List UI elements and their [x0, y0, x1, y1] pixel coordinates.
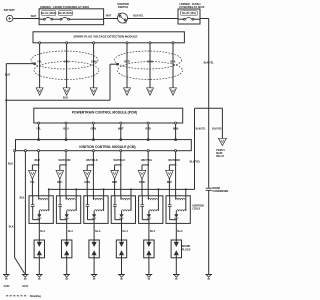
ICM output WHT/BLU to ignition coil No.4: [120, 150, 122, 152]
sense branch YEL with connector triangle (coil No.1): [32, 164, 38, 166]
wire BLK/YEL to noise condenser: [208, 108, 210, 188]
svg-text:RED: RED: [124, 60, 129, 63]
svg-text:GRN: GRN: [91, 127, 97, 130]
svg-text:BLK/YEL: BLK/YEL: [196, 128, 206, 130]
detection module terminal and sense wire GRN (cyl 3): [93, 42, 95, 44]
svg-text:No.25 (15A): No.25 (15A): [182, 12, 196, 15]
bus drop to coil No.1: [48, 188, 50, 190]
arrow to ignition coil No.4: [124, 88, 131, 96]
svg-text:COILS: COILS: [193, 208, 201, 211]
bus drop to coil No.3: [103, 188, 105, 190]
sense branch BLU with connector triangle (coil No.2): [60, 164, 66, 166]
svg-text:BATTERY: BATTERY: [4, 9, 15, 12]
shield ellipses left sensor group: [31, 51, 98, 69]
ICM output WHT/RED to ignition coil No.6: [175, 150, 177, 152]
svg-text:SPARK PLUG VOLTAGE DETECTION M: SPARK PLUG VOLTAGE DETECTION MODULE: [74, 34, 138, 38]
powertrain control module (PCM): [34, 108, 183, 123]
sense branch BRN with connector triangle (coil No.5): [142, 164, 148, 166]
ignition switch: [118, 13, 128, 23]
PCM output terminal 5 and wire to ICM: [147, 122, 149, 124]
arrow to ignition coil No.1: [36, 88, 43, 96]
svg-text:BRN: BRN: [139, 181, 145, 184]
wire BLK/YEL to PGM-FI main relay: [221, 108, 223, 138]
PCM output terminal 3 and wire to ICM: [92, 122, 94, 124]
spark plug No.3: [93, 223, 95, 240]
svg-text:BLK: BLK: [9, 227, 14, 229]
svg-text:PLUGS: PLUGS: [182, 248, 191, 251]
svg-text:GRN: GRN: [91, 60, 97, 63]
wire WHT fuse box to ignition switch: [104, 18, 118, 20]
svg-text:IG1: IG1: [124, 23, 127, 25]
ground spark plug No.6: [173, 274, 180, 276]
svg-text:YEL: YEL: [37, 60, 42, 63]
sense branch BLK with connector triangle (coil No.6): [169, 164, 175, 166]
svg-text:BLK/YEL: BLK/YEL: [190, 160, 201, 163]
under-hood fuse/relay box: [39, 9, 104, 25]
ground spark plug No.3: [91, 274, 98, 276]
ignition control module (ICM): [16, 140, 192, 151]
spark plug No.2: [66, 223, 68, 240]
noise condenser C1: [206, 187, 212, 189]
ground G102: [3, 274, 10, 276]
svg-text:BLU: BLU: [63, 127, 68, 130]
arrow to ignition coil No.6: [170, 88, 177, 96]
ICM ground terminal 1 wire BLK to G101: [14, 150, 16, 152]
arrow to ignition coil No.5: [147, 88, 154, 96]
svg-text:No.5: No.5: [150, 230, 156, 233]
svg-text:WHT/RED: WHT/RED: [168, 159, 180, 162]
svg-text:No.2: No.2: [68, 230, 74, 233]
shield ellipses right sensor group: [115, 51, 182, 69]
svg-text:BLK: BLK: [170, 60, 175, 63]
fuse No.35 (50A): [58, 11, 72, 16]
svg-text:BLK/YEL: BLK/YEL: [212, 128, 222, 130]
svg-text:No.4: No.4: [123, 230, 129, 233]
bus drop to coil No.5: [157, 188, 159, 190]
detection module terminal and sense wire YEL (cyl 1): [39, 42, 41, 44]
battery B1: [7, 15, 13, 21]
svg-text:BLK: BLK: [167, 181, 172, 184]
svg-text:CONDENSER: CONDENSER: [212, 190, 228, 193]
detection module terminal and sense wire RED (cyl 4): [126, 42, 128, 44]
svg-text:WHT/BLU: WHT/BLU: [114, 159, 126, 162]
ignition coil No.4: [111, 196, 135, 224]
svg-text:BLK/YEL: BLK/YEL: [204, 62, 215, 65]
off-page arrow PGM-FI main relay: [218, 138, 226, 145]
bus drop to coil No.4: [130, 188, 132, 190]
svg-text:No.3: No.3: [95, 230, 101, 233]
svg-text:BLK: BLK: [5, 74, 10, 77]
svg-text:WHT: WHT: [118, 127, 124, 130]
detection module terminal and sense wire BLU (cyl 2): [66, 42, 68, 44]
svg-text:BLU: BLU: [57, 181, 62, 184]
PCM output terminal 4 and wire to ICM: [120, 122, 122, 124]
svg-text:WHT: WHT: [106, 14, 112, 17]
ignition coil No.3: [84, 196, 108, 224]
detection module terminal and sense wire BRN (cyl 5): [149, 42, 151, 44]
ICM output WHT to ignition coil No.1: [38, 150, 40, 152]
arrow to ignition coil No.3: [90, 88, 97, 96]
spark plug No.1: [38, 223, 40, 240]
detection module terminal and sense wire BLK (cyl 6): [172, 42, 174, 44]
wire BLK/YEL to ignition coils: [194, 108, 196, 189]
svg-text:G102: G102: [4, 285, 11, 288]
sense branch GRN with connector triangle (coil No.3): [87, 164, 93, 166]
wire junction split under-dash feed: [195, 107, 223, 109]
wire shield ground G102 drop: [5, 100, 7, 274]
ignition coil No.6: [166, 196, 190, 224]
svg-text:No.1: No.1: [40, 230, 46, 233]
arrow to ignition coil No.2: [63, 88, 70, 96]
svg-text:WHT/GRN: WHT/GRN: [59, 159, 71, 162]
wire WHT battery to under-hood fuse box: [13, 18, 39, 20]
svg-text:No.6: No.6: [177, 230, 183, 233]
svg-text:RED: RED: [146, 127, 151, 130]
svg-text:SWITCH: SWITCH: [118, 5, 128, 9]
svg-text:YEL: YEL: [30, 181, 35, 184]
svg-text:POWERTRAIN CONTROL MODULE (PCM: POWERTRAIN CONTROL MODULE (PCM): [72, 110, 137, 114]
svg-text:RED: RED: [112, 181, 117, 184]
wire BLK/YEL down right side: [200, 18, 209, 20]
svg-text:IGNITION CONTROL MODULE (ICM): IGNITION CONTROL MODULE (ICM): [79, 145, 135, 149]
spark plug No.6: [175, 223, 177, 240]
svg-text:WHT: WHT: [31, 15, 37, 18]
bus drop to coil No.2: [75, 188, 77, 190]
svg-text:WHT/YEL: WHT/YEL: [141, 159, 153, 162]
svg-text:BRN: BRN: [173, 127, 179, 130]
wire BLK/YEL ignition switch to under-dash fuse box: [128, 18, 179, 20]
svg-text:BLK/YEL: BLK/YEL: [133, 14, 144, 17]
ground spark plug No.4: [118, 274, 125, 276]
spark plug No.5: [148, 223, 150, 240]
ignition coil No.5: [139, 196, 163, 224]
svg-text:RELAY: RELAY: [216, 155, 224, 158]
svg-text:No.31 (100A): No.31 (100A): [41, 12, 56, 15]
spark plug No.4: [121, 223, 123, 240]
ignition coil No.2: [56, 196, 80, 224]
fuse No.31 (100A): [42, 11, 56, 16]
ignition coil No.1: [29, 196, 53, 224]
ground spark plug No.5: [146, 274, 153, 276]
svg-text:: Shielding: : Shielding: [29, 295, 42, 298]
ground noise condenser: [205, 274, 212, 276]
svg-text:WHT/BLK: WHT/BLK: [86, 159, 98, 162]
svg-text:WHT: WHT: [34, 159, 40, 162]
svg-text:GRN: GRN: [84, 181, 90, 184]
spark plug voltage detection module: [33, 32, 184, 43]
svg-text:YEL: YEL: [36, 127, 41, 130]
under-dash fuse/relay box: [178, 9, 200, 24]
ground G101: [22, 274, 29, 276]
ICM output WHT/YEL to ignition coil No.5: [147, 150, 149, 152]
coil power bus BLK/YEL: [49, 188, 195, 190]
bus drop to coil No.6: [185, 188, 187, 190]
fuse No.25 (15A): [180, 11, 197, 15]
legend shielding: [6, 295, 27, 297]
svg-text:BLK: BLK: [20, 198, 25, 200]
PCM output terminal 1 and wire to ICM: [38, 122, 40, 124]
PCM output terminal 6 and wire to ICM: [175, 122, 177, 124]
ICM ground terminal 2 wire BLK to G101: [24, 150, 26, 152]
ground spark plug No.2: [63, 274, 70, 276]
PCM output terminal 2 and wire to ICM: [65, 122, 67, 124]
ground spark plug No.1: [36, 274, 43, 276]
svg-text:G101: G101: [22, 285, 29, 288]
svg-text:BLK: BLK: [63, 97, 68, 100]
shield ground wire BLK to G102: [33, 63, 35, 65]
ICM output WHT/BLK to ignition coil No.3: [92, 150, 94, 152]
sense branch RED with connector triangle (coil No.4): [115, 164, 121, 166]
ICM output WHT/GRN to ignition coil No.2: [65, 150, 67, 152]
svg-text:No.35 (50A): No.35 (50A): [59, 12, 73, 15]
svg-text:FUSE/RELAY BOX: FUSE/RELAY BOX: [179, 5, 204, 9]
svg-text:BLK: BLK: [8, 163, 13, 166]
svg-text:UNDER - HOOD FUSE/RELAY BOX: UNDER - HOOD FUSE/RELAY BOX: [40, 5, 89, 9]
